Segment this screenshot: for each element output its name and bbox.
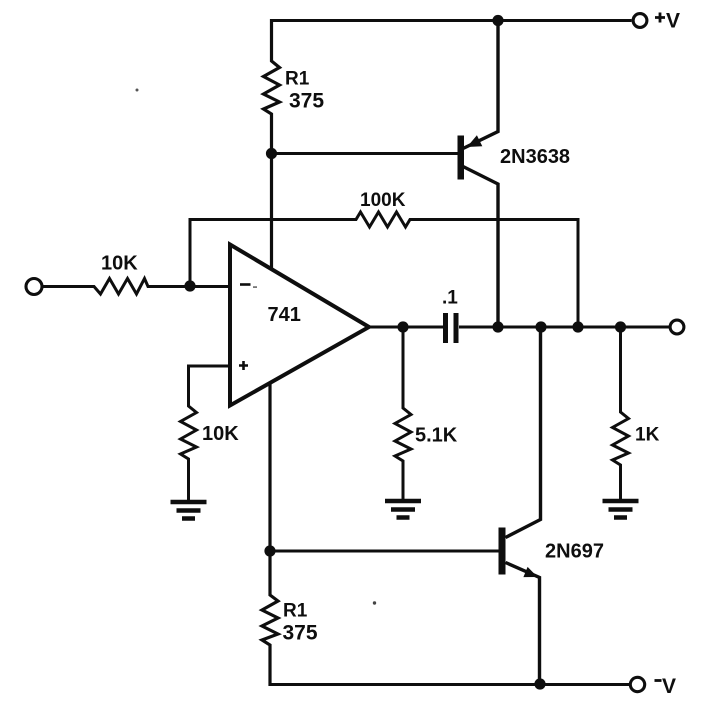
svg-text:V: V <box>662 675 676 698</box>
svg-text:2N697: 2N697 <box>545 541 604 563</box>
svg-text:375: 375 <box>283 622 318 645</box>
svg-text:2N3638: 2N3638 <box>500 146 570 168</box>
svg-text:375: 375 <box>289 90 324 113</box>
svg-text:V: V <box>666 10 680 33</box>
svg-text:R1: R1 <box>285 69 310 90</box>
svg-text:1K: 1K <box>635 425 660 446</box>
svg-text:5.1K: 5.1K <box>415 425 458 447</box>
svg-text:741: 741 <box>268 304 301 326</box>
svg-text:R1: R1 <box>283 601 308 622</box>
svg-text:.1: .1 <box>442 288 458 309</box>
svg-text:100K: 100K <box>360 190 406 211</box>
svg-text:10K: 10K <box>101 253 138 275</box>
svg-text:10K: 10K <box>202 423 239 445</box>
